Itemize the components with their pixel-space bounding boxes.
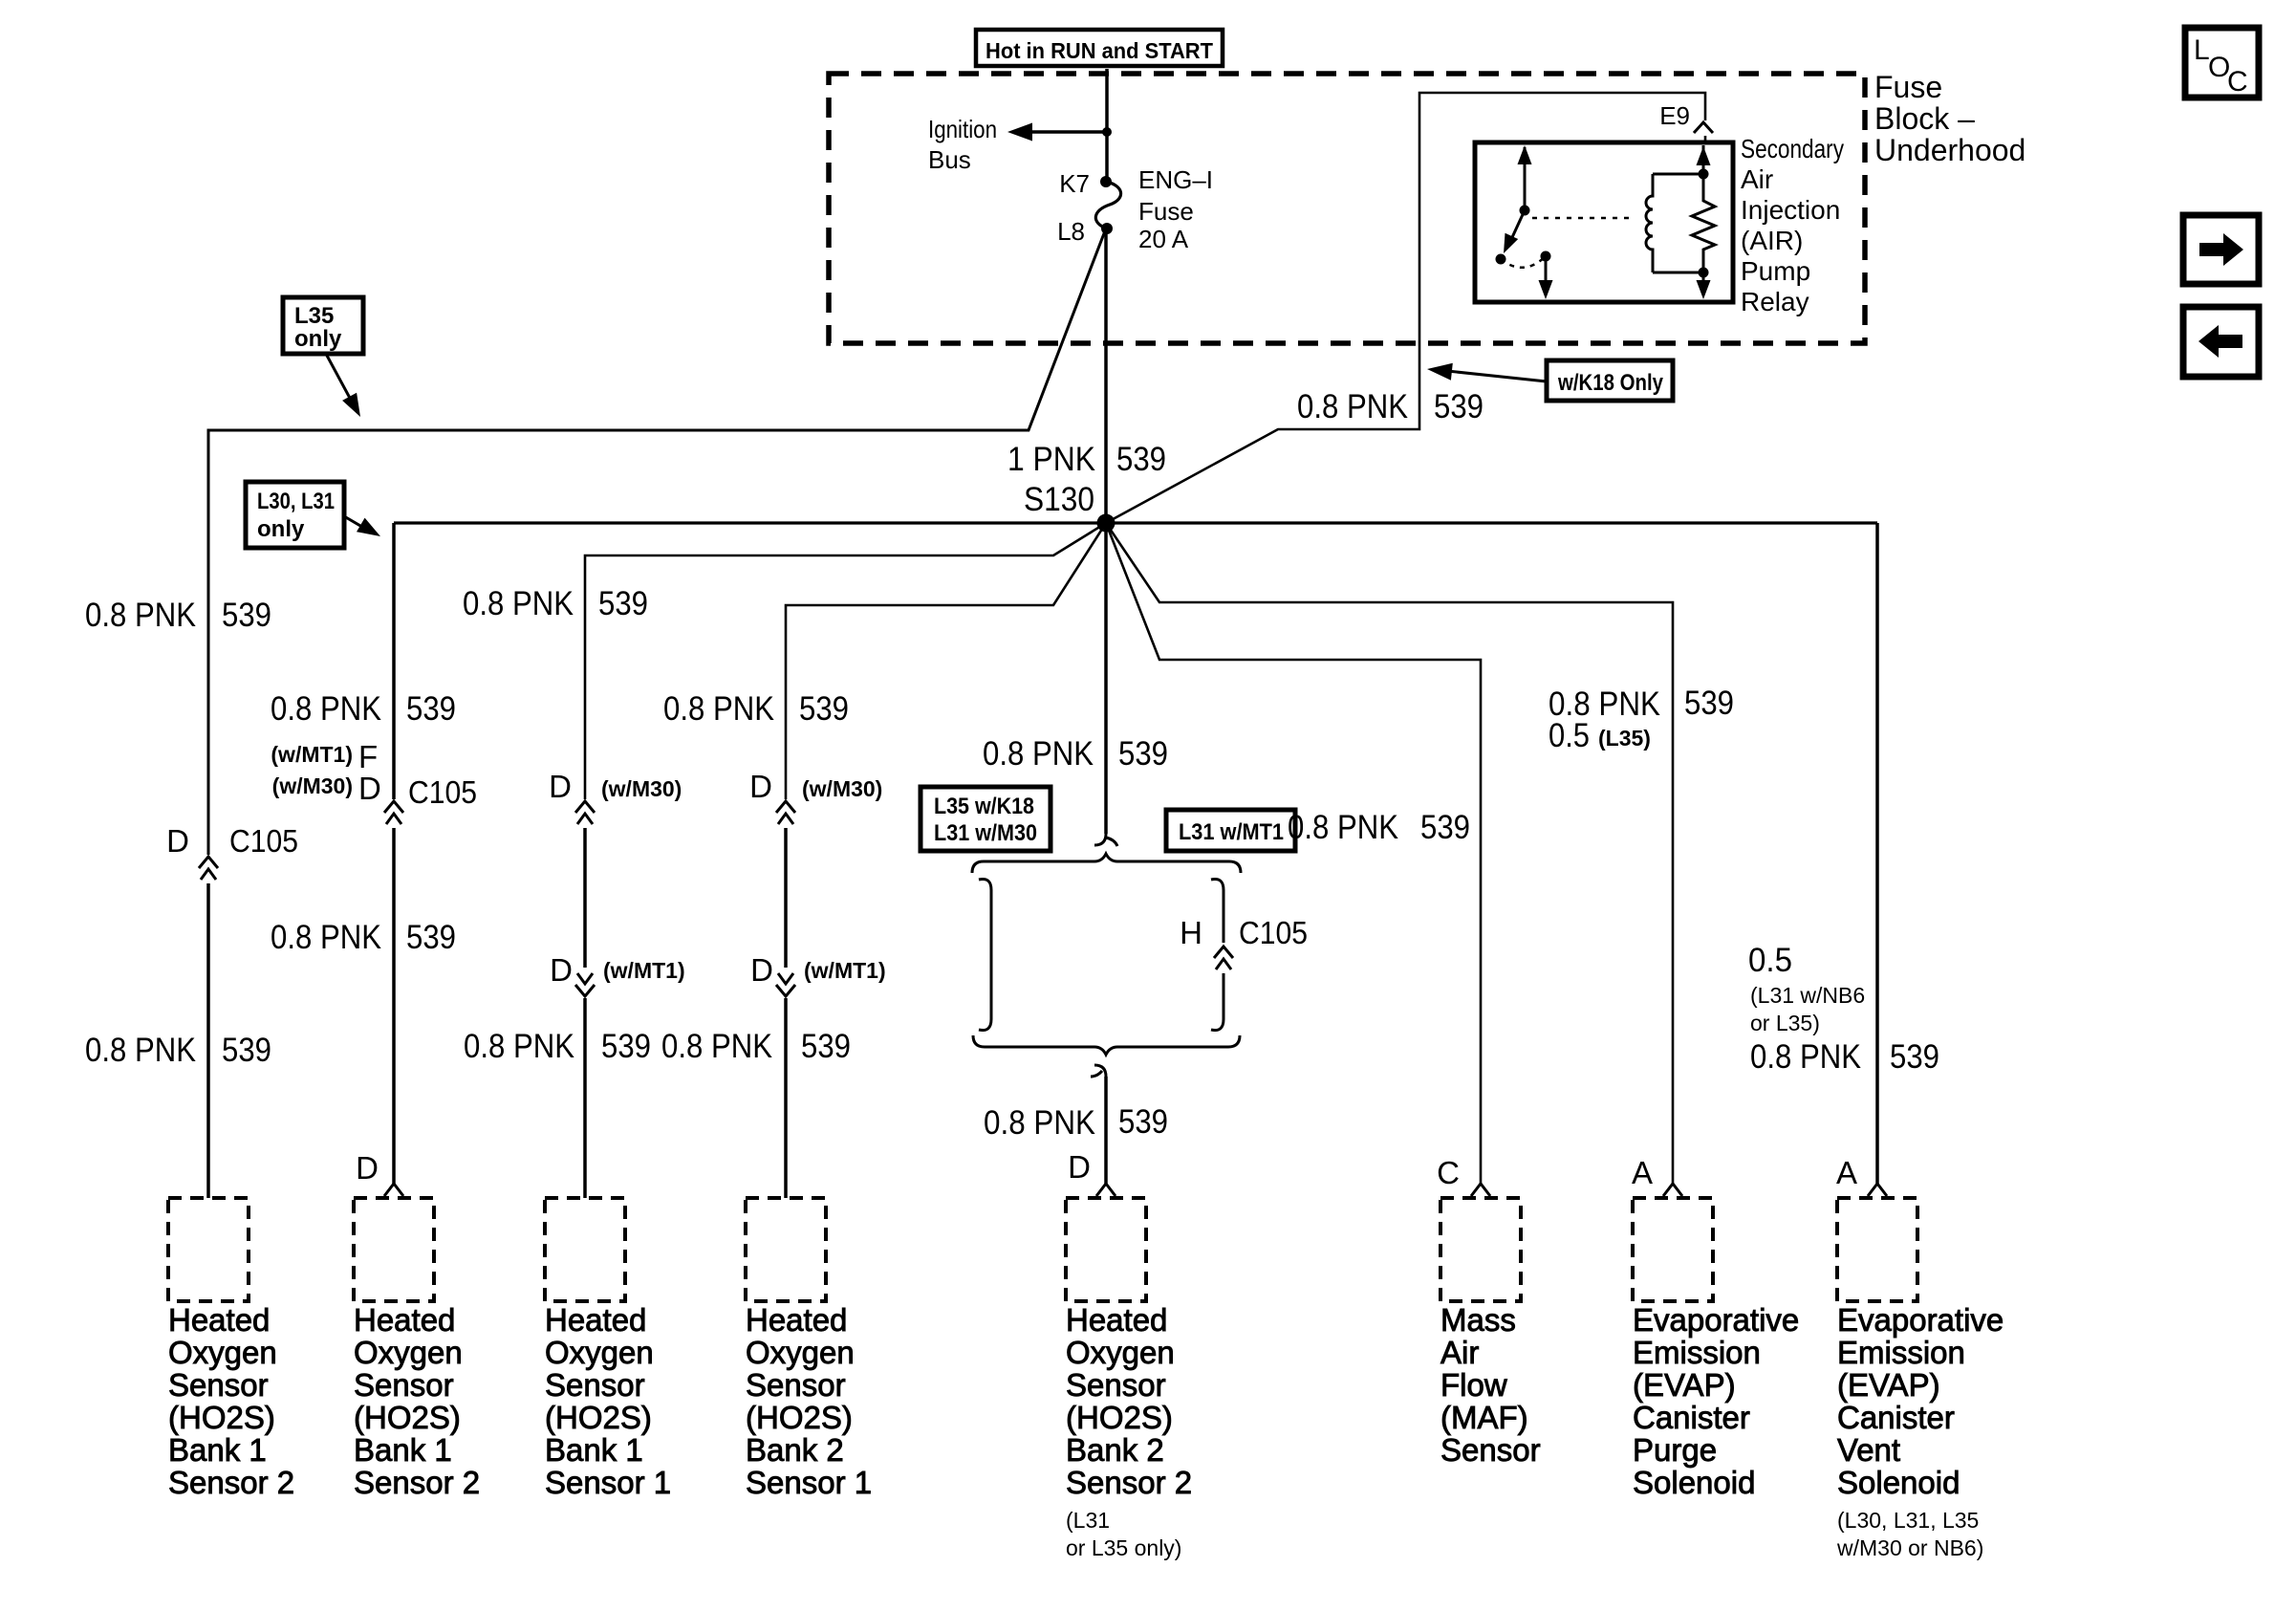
svg-text:Fuse: Fuse bbox=[1874, 70, 1942, 104]
svg-text:Evaporative: Evaporative bbox=[1633, 1302, 1799, 1338]
svg-text:(L31 w/NB6: (L31 w/NB6 bbox=[1750, 983, 1865, 1008]
svg-text:(w/MT1): (w/MT1) bbox=[271, 742, 353, 767]
svg-text:Oxygen: Oxygen bbox=[545, 1335, 654, 1370]
svg-text:L30, L31: L30, L31 bbox=[257, 489, 335, 514]
svg-text:Solenoid: Solenoid bbox=[1837, 1465, 1960, 1500]
svg-text:Heated: Heated bbox=[746, 1302, 847, 1338]
svg-text:Sensor 1: Sensor 1 bbox=[746, 1465, 872, 1500]
svg-text:ENG–I: ENG–I bbox=[1138, 165, 1213, 194]
svg-text:w/M30 or NB6): w/M30 or NB6) bbox=[1836, 1535, 1983, 1560]
svg-text:Relay: Relay bbox=[1741, 287, 1809, 316]
svg-text:F: F bbox=[358, 739, 378, 774]
svg-text:0.8 PNK: 0.8 PNK bbox=[661, 1028, 772, 1065]
svg-text:or L35): or L35) bbox=[1750, 1011, 1820, 1035]
svg-text:(w/M30): (w/M30) bbox=[802, 776, 882, 801]
svg-text:539: 539 bbox=[1434, 388, 1484, 425]
svg-text:0.8 PNK: 0.8 PNK bbox=[464, 1028, 574, 1065]
svg-text:Heated: Heated bbox=[1066, 1302, 1167, 1338]
svg-text:Sensor: Sensor bbox=[1440, 1432, 1541, 1468]
svg-text:S130: S130 bbox=[1024, 481, 1094, 518]
svg-text:(EVAP): (EVAP) bbox=[1837, 1367, 1940, 1403]
svg-text:Purge: Purge bbox=[1633, 1432, 1717, 1468]
svg-text:Ignition: Ignition bbox=[928, 115, 997, 143]
svg-text:Bank 1: Bank 1 bbox=[354, 1432, 452, 1468]
svg-text:(L30, L31, L35: (L30, L31, L35 bbox=[1837, 1508, 1979, 1533]
svg-text:539: 539 bbox=[1116, 441, 1166, 478]
svg-text:A: A bbox=[1836, 1155, 1857, 1190]
svg-text:C: C bbox=[2227, 66, 2248, 98]
svg-text:only: only bbox=[294, 326, 342, 352]
svg-text:Flow: Flow bbox=[1440, 1367, 1507, 1403]
svg-text:(w/M30): (w/M30) bbox=[272, 773, 353, 798]
svg-text:Canister: Canister bbox=[1633, 1400, 1750, 1435]
svg-text:Sensor: Sensor bbox=[746, 1367, 846, 1403]
svg-text:539: 539 bbox=[601, 1028, 651, 1065]
svg-text:20 A: 20 A bbox=[1138, 225, 1189, 253]
svg-text:D: D bbox=[356, 1150, 379, 1186]
svg-text:Vent: Vent bbox=[1837, 1432, 1900, 1468]
svg-text:E9: E9 bbox=[1659, 101, 1690, 130]
svg-text:Block –: Block – bbox=[1874, 101, 1975, 136]
svg-text:D: D bbox=[1068, 1149, 1091, 1185]
svg-text:(L31: (L31 bbox=[1066, 1508, 1110, 1533]
svg-text:D: D bbox=[750, 952, 773, 988]
svg-text:Bank 2: Bank 2 bbox=[746, 1432, 844, 1468]
svg-text:0.8 PNK: 0.8 PNK bbox=[983, 735, 1094, 773]
svg-text:Heated: Heated bbox=[168, 1302, 270, 1338]
svg-text:Emission: Emission bbox=[1837, 1335, 1965, 1370]
svg-text:0.8 PNK: 0.8 PNK bbox=[463, 585, 574, 622]
svg-text:(w/MT1): (w/MT1) bbox=[603, 958, 685, 983]
svg-text:Sensor 2: Sensor 2 bbox=[1066, 1465, 1192, 1500]
svg-text:Bus: Bus bbox=[928, 145, 971, 174]
svg-text:Sensor: Sensor bbox=[354, 1367, 454, 1403]
svg-text:539: 539 bbox=[1890, 1038, 1939, 1076]
svg-text:D: D bbox=[166, 823, 189, 859]
svg-text:0.5: 0.5 bbox=[1748, 942, 1792, 979]
svg-text:(w/MT1): (w/MT1) bbox=[804, 958, 886, 983]
svg-text:w/K18 Only: w/K18 Only bbox=[1557, 370, 1663, 396]
svg-text:L31 w/MT1: L31 w/MT1 bbox=[1179, 819, 1284, 845]
svg-text:(HO2S): (HO2S) bbox=[1066, 1400, 1173, 1435]
svg-text:(HO2S): (HO2S) bbox=[746, 1400, 853, 1435]
svg-text:Underhood: Underhood bbox=[1874, 133, 2025, 167]
svg-text:Oxygen: Oxygen bbox=[168, 1335, 277, 1370]
svg-text:0.8 PNK: 0.8 PNK bbox=[663, 690, 774, 728]
svg-text:Fuse: Fuse bbox=[1138, 197, 1194, 226]
svg-text:Sensor 2: Sensor 2 bbox=[354, 1465, 480, 1500]
svg-text:Air: Air bbox=[1741, 164, 1773, 194]
svg-text:D: D bbox=[550, 952, 573, 988]
svg-text:539: 539 bbox=[222, 1032, 271, 1069]
svg-text:A: A bbox=[1632, 1155, 1653, 1190]
svg-text:Sensor: Sensor bbox=[1066, 1367, 1166, 1403]
svg-text:(MAF): (MAF) bbox=[1440, 1400, 1528, 1435]
svg-text:(w/M30): (w/M30) bbox=[601, 776, 682, 801]
svg-text:Bank 2: Bank 2 bbox=[1066, 1432, 1164, 1468]
svg-text:0.8 PNK: 0.8 PNK bbox=[1297, 388, 1408, 425]
svg-text:Mass: Mass bbox=[1440, 1302, 1516, 1338]
svg-text:Heated: Heated bbox=[545, 1302, 646, 1338]
svg-text:539: 539 bbox=[598, 585, 648, 622]
svg-text:0.8 PNK: 0.8 PNK bbox=[1750, 1038, 1861, 1076]
svg-text:539: 539 bbox=[406, 919, 456, 956]
svg-text:Hot in RUN and START: Hot in RUN and START bbox=[986, 38, 1213, 63]
svg-text:L35 w/K18: L35 w/K18 bbox=[934, 794, 1034, 819]
svg-text:Sensor 2: Sensor 2 bbox=[168, 1465, 294, 1500]
svg-text:K7: K7 bbox=[1059, 169, 1090, 198]
svg-text:C: C bbox=[1437, 1155, 1460, 1190]
svg-text:Sensor: Sensor bbox=[168, 1367, 269, 1403]
svg-text:Evaporative: Evaporative bbox=[1837, 1302, 2004, 1338]
svg-text:(EVAP): (EVAP) bbox=[1633, 1367, 1736, 1403]
svg-text:539: 539 bbox=[1684, 685, 1734, 722]
svg-text:Secondary: Secondary bbox=[1741, 134, 1844, 163]
svg-text:0.8 PNK: 0.8 PNK bbox=[984, 1104, 1095, 1142]
svg-text:(HO2S): (HO2S) bbox=[168, 1400, 275, 1435]
svg-text:Solenoid: Solenoid bbox=[1633, 1465, 1755, 1500]
svg-text:Bank 1: Bank 1 bbox=[168, 1432, 267, 1468]
svg-text:Sensor: Sensor bbox=[545, 1367, 645, 1403]
svg-text:C105: C105 bbox=[1239, 915, 1308, 950]
svg-text:0.5: 0.5 bbox=[1549, 717, 1590, 754]
svg-text:1 PNK: 1 PNK bbox=[1007, 441, 1095, 478]
svg-text:(AIR): (AIR) bbox=[1741, 226, 1803, 255]
svg-text:Bank 1: Bank 1 bbox=[545, 1432, 643, 1468]
svg-text:Injection: Injection bbox=[1741, 195, 1840, 225]
svg-text:or L35 only): or L35 only) bbox=[1066, 1535, 1181, 1560]
svg-text:L31 w/M30: L31 w/M30 bbox=[934, 820, 1037, 846]
svg-text:L35: L35 bbox=[294, 303, 334, 329]
svg-text:(L35): (L35) bbox=[1598, 726, 1651, 751]
svg-text:D: D bbox=[749, 769, 772, 804]
svg-text:Air: Air bbox=[1440, 1335, 1479, 1370]
svg-text:Oxygen: Oxygen bbox=[1066, 1335, 1175, 1370]
svg-text:Canister: Canister bbox=[1837, 1400, 1955, 1435]
svg-text:Oxygen: Oxygen bbox=[746, 1335, 855, 1370]
svg-text:539: 539 bbox=[222, 597, 271, 634]
svg-text:Sensor 1: Sensor 1 bbox=[545, 1465, 671, 1500]
svg-text:0.8 PNK: 0.8 PNK bbox=[85, 1032, 196, 1069]
svg-text:0.8 PNK: 0.8 PNK bbox=[271, 919, 381, 956]
svg-text:0.8 PNK: 0.8 PNK bbox=[1288, 809, 1398, 846]
svg-text:539: 539 bbox=[1118, 735, 1168, 773]
svg-text:Pump: Pump bbox=[1741, 256, 1810, 286]
svg-text:Heated: Heated bbox=[354, 1302, 455, 1338]
svg-text:L8: L8 bbox=[1057, 217, 1085, 246]
svg-text:0.8 PNK: 0.8 PNK bbox=[271, 690, 381, 728]
svg-text:539: 539 bbox=[406, 690, 456, 728]
svg-text:only: only bbox=[257, 516, 305, 542]
svg-text:D: D bbox=[549, 769, 572, 804]
svg-text:(HO2S): (HO2S) bbox=[545, 1400, 652, 1435]
svg-text:539: 539 bbox=[1118, 1103, 1168, 1141]
svg-text:Emission: Emission bbox=[1633, 1335, 1761, 1370]
svg-text:539: 539 bbox=[1420, 809, 1470, 846]
svg-text:C105: C105 bbox=[229, 823, 298, 859]
svg-text:539: 539 bbox=[801, 1028, 851, 1065]
svg-text:(HO2S): (HO2S) bbox=[354, 1400, 461, 1435]
svg-text:0.8 PNK: 0.8 PNK bbox=[85, 597, 196, 634]
svg-text:D: D bbox=[358, 771, 381, 806]
svg-text:C105: C105 bbox=[408, 774, 477, 810]
svg-text:Oxygen: Oxygen bbox=[354, 1335, 463, 1370]
svg-text:539: 539 bbox=[799, 690, 849, 728]
svg-text:H: H bbox=[1180, 915, 1202, 950]
